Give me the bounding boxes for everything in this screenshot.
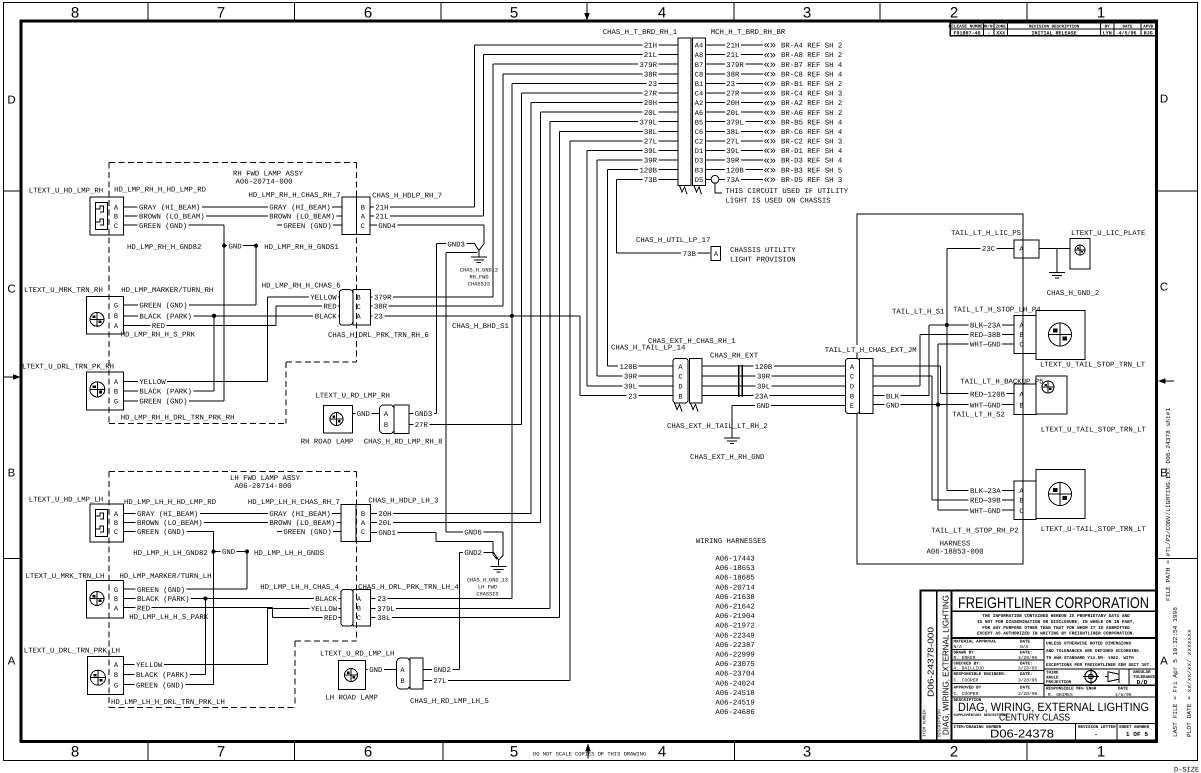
svg-text:BLACK (PARK): BLACK (PARK): [139, 312, 192, 321]
svg-text:BR-B7 REF SH 4: BR-B7 REF SH 4: [781, 62, 843, 70]
wire 120B vertical run: [607, 170, 609, 366]
svg-text:LTEXT_U_TAIL_STOP_TRN_LT: LTEXT_U_TAIL_STOP_TRN_LT: [1041, 426, 1147, 434]
approvals table: [1043, 638, 1045, 697]
svg-text:CHAS_H_DRL_PRK_TRN_LH_4: CHAS_H_DRL_PRK_TRN_LH_4: [358, 584, 459, 592]
wire GREEN (GND) RH headlamp: [123, 224, 224, 226]
third angle projection cell: [1044, 668, 1157, 670]
svg-text:LTEXT_U_RD_LMP_RH: LTEXT_U_RD_LMP_RH: [315, 393, 389, 401]
wire 23C: [947, 248, 1014, 250]
svg-text:A06-22349: A06-22349: [715, 632, 754, 640]
svg-text:39L: 39L: [644, 148, 657, 156]
wire 23 row into bulkhead connector: [512, 82, 678, 84]
svg-text:CHAS_EXT_H_RH_GND: CHAS_EXT_H_RH_GND: [690, 454, 765, 462]
ground symbol CHAS_H_GND_1S LH FWD CHASSIS: [498, 559, 500, 566]
wire 23 into tail LP connector: [580, 395, 673, 397]
svg-text:BLACK (PARK): BLACK (PARK): [136, 671, 189, 680]
svg-text:BLK: BLK: [886, 393, 900, 401]
svg-text:39R: 39R: [726, 158, 740, 166]
svg-text:39L: 39L: [757, 384, 770, 392]
svg-text:FOR ANY PURPOSE OTHER THAN THA: FOR ANY PURPOSE OTHER THAN THAT FOR WHOM…: [982, 626, 1130, 631]
tail/stop/turn lamp RH: [1036, 470, 1085, 519]
svg-text:LTEXT_U_TAIL_STOP_TRN_LT: LTEXT_U_TAIL_STOP_TRN_LT: [1040, 362, 1146, 370]
svg-text:B: B: [114, 313, 118, 321]
svg-text:APVD: APVD: [1143, 25, 1154, 30]
svg-text:RED—120B: RED—120B: [970, 391, 1006, 399]
svg-text:379L: 379L: [726, 119, 744, 127]
svg-text:YELLOW: YELLOW: [139, 379, 166, 387]
svg-text:A06-20714: A06-20714: [715, 584, 755, 592]
wire 39R to splice BR-D3: [706, 159, 764, 161]
svg-text:7: 7: [217, 744, 225, 761]
svg-text:ITEM NUMBER: ITEM NUMBER: [923, 709, 928, 737]
svg-text:DATE: DATE: [1122, 25, 1133, 30]
svg-text:38R: 38R: [644, 71, 658, 79]
wire GREEN (GND) marker LH: [124, 588, 248, 590]
label TAIL_LT_H_CHAS_EXT_JM: [823, 345, 917, 353]
wire GREEN (GND) LH headlamp: [124, 531, 214, 533]
svg-text:TAIL_LT_H_STOP_RH_P2: TAIL_LT_H_STOP_RH_P2: [931, 528, 1019, 536]
svg-text:N/A: N/A: [954, 644, 963, 650]
svg-text:WHT—GND: WHT—GND: [970, 402, 1001, 410]
svg-text:A06-21972: A06-21972: [715, 623, 754, 631]
svg-text:C: C: [7, 283, 15, 295]
svg-text:A06-18653: A06-18653: [715, 565, 754, 573]
svg-text:A06-18853-000: A06-18853-000: [927, 548, 984, 556]
svg-text:«»: «»: [764, 175, 777, 187]
svg-text:120B: 120B: [619, 364, 637, 372]
svg-text:DATE: DATE: [1020, 640, 1031, 645]
DRL lamp icon LH: [91, 670, 106, 685]
svg-text:DATE:: DATE:: [1020, 672, 1033, 677]
wire 39L to splice BR-D1: [706, 150, 764, 152]
svg-text:HD_LMP_MARKER/TURN_LH: HD_LMP_MARKER/TURN_LH: [120, 572, 212, 581]
svg-text:RED: RED: [137, 605, 151, 613]
svg-text:TAIL_LT_H_CHAS_EXT_JM: TAIL_LT_H_CHAS_EXT_JM: [825, 347, 917, 355]
svg-text:23: 23: [628, 393, 637, 401]
junction HD_LMP_RH_H_GND82: [222, 244, 226, 248]
svg-text:PLOT DATE = xx/xx/xx/ xxxxxxx: PLOT DATE = xx/xx/xx/ xxxxxxx: [1186, 629, 1193, 737]
svg-text:D/D: D/D: [1137, 679, 1148, 686]
svg-text:BR-A6 REF SH 2: BR-A6 REF SH 2: [781, 110, 842, 118]
svg-text:GRAY (HI_BEAM): GRAY (HI_BEAM): [139, 204, 200, 213]
connector CHAS_H_DRL_PRK_TRN_LH_4: [341, 590, 353, 627]
inline connector circle on 73A circuit: [711, 175, 719, 183]
svg-text:TO AWS STANDARD Y14.5M- 1982.: TO AWS STANDARD Y14.5M- 1982. WITH: [1046, 656, 1134, 661]
zone tick marks top: [147, 3, 149, 22]
svg-text:GRAY (HI_BEAM): GRAY (HI_BEAM): [269, 204, 330, 213]
right border alignment arrow: [1166, 380, 1175, 382]
company name: [952, 610, 1157, 612]
wire GND3: [409, 413, 437, 415]
svg-text:CENTURY CLASS: CENTURY CLASS: [999, 713, 1070, 724]
svg-text:3: 3: [803, 5, 811, 22]
svg-text:27R: 27R: [726, 91, 740, 99]
wire 120BA to tail lt harness: [702, 365, 846, 367]
svg-text:27L: 27L: [644, 139, 657, 147]
wire 379L to splice BR-B5: [706, 121, 764, 123]
svg-text:B: B: [114, 672, 118, 680]
headlamp icon RH: [96, 203, 108, 230]
svg-text:B: B: [850, 393, 854, 401]
svg-text:120B: 120B: [755, 364, 773, 372]
wire GND6: [446, 531, 503, 533]
svg-text:6: 6: [364, 744, 372, 761]
wire 27R vertical run: [521, 93, 523, 424]
svg-text:BROWN (LO_BEAM): BROWN (LO_BEAM): [269, 213, 335, 222]
svg-text:20H: 20H: [644, 100, 657, 108]
svg-text:20L: 20L: [378, 520, 391, 528]
wire YELLOW to 379R: [267, 296, 339, 298]
svg-text:GREEN (GND): GREEN (GND): [139, 222, 187, 231]
svg-text:CHAS_H_RD_LMP_RH_8: CHAS_H_RD_LMP_RH_8: [364, 438, 443, 446]
svg-text:HD_LMP_RH_H_GND82: HD_LMP_RH_H_GND82: [127, 244, 201, 252]
wire 23 LH: [370, 598, 512, 600]
wire 21H to splice BR-A4: [706, 44, 764, 46]
svg-text:38R: 38R: [374, 304, 388, 312]
svg-text:DIAG, WIRING, EXTERNAL LIGHTIN: DIAG, WIRING, EXTERNAL LIGHTING: [941, 595, 951, 735]
svg-text:23: 23: [648, 81, 657, 89]
zone tick marks left: [4, 190, 22, 192]
svg-text:G: G: [114, 303, 118, 311]
wire 39R into tail LP connector: [597, 375, 673, 377]
svg-text:CHAS_H_RD_LMP_LH_5: CHAS_H_RD_LMP_LH_5: [410, 698, 489, 706]
svg-text:WIRING HARNESSES: WIRING HARNESSES: [696, 538, 767, 546]
svg-text:CHASSIS UTILITY: CHASSIS UTILITY: [730, 247, 796, 255]
wire 23A branch: [512, 315, 580, 317]
svg-text:GND2: GND2: [464, 550, 482, 558]
wire gnd bus LH right: [246, 552, 248, 590]
wire branch to LH ground bus: [446, 251, 478, 254]
svg-text:D: D: [7, 94, 15, 106]
svg-text:GREEN (GND): GREEN (GND): [137, 528, 185, 537]
svg-text:D1: D1: [695, 148, 703, 156]
svg-text:GREEN (GND): GREEN (GND): [136, 681, 184, 690]
svg-text:HD_LMP_RH_H_S_PRK: HD_LMP_RH_H_S_PRK: [121, 332, 196, 340]
svg-text:XXX: XXX: [996, 30, 1005, 36]
wire gnd bus RH left: [223, 225, 225, 401]
svg-text:BR-A4 REF SH 2: BR-A4 REF SH 2: [781, 43, 842, 51]
wire 23A bus vertical: [946, 249, 948, 491]
svg-text:G: G: [114, 399, 118, 407]
svg-text:GND: GND: [357, 411, 371, 419]
svg-text:23C: 23C: [982, 246, 996, 254]
RH FWD LAMP ASSY dashed enclosure: [109, 162, 357, 164]
zone tick marks bottom: [147, 742, 149, 761]
svg-text:A8: A8: [695, 52, 703, 60]
RH headlamp wires to chassis connector: [123, 206, 341, 208]
wire RED to 38L: [273, 617, 342, 619]
wire gnd bus LH left: [212, 532, 214, 685]
svg-text:D06-24378: D06-24378: [990, 729, 1054, 741]
svg-text:23: 23: [726, 81, 735, 89]
bottom center alignment arrow: [587, 751, 589, 759]
svg-text:GND: GND: [886, 402, 900, 410]
LH road lamp box: [339, 661, 366, 690]
svg-text:21H: 21H: [644, 43, 657, 51]
DRL/turn/park connector RH: [87, 372, 124, 410]
svg-text:C. COOPER: C. COOPER: [954, 691, 979, 697]
svg-text:A06-21642: A06-21642: [715, 604, 754, 612]
svg-text:BR-D1 REF SH 4: BR-D1 REF SH 4: [781, 148, 843, 156]
connector CHAS_H_HDLP_RH_7: [342, 197, 370, 235]
svg-text:120B: 120B: [639, 167, 657, 175]
svg-text:MCH_H_T_BRD_RH_BR: MCH_H_T_BRD_RH_BR: [711, 29, 786, 37]
svg-text:APPROVED BY: APPROVED BY: [954, 686, 982, 691]
svg-text:DATE: DATE: [1118, 687, 1129, 692]
svg-text:4/5/96: 4/5/96: [1115, 692, 1132, 698]
wire 73B to utility provision: [616, 252, 710, 254]
svg-text:C4: C4: [695, 91, 703, 99]
wire GND2: [460, 551, 490, 553]
svg-text:GND4: GND4: [378, 223, 396, 231]
wire RED to 38R: [276, 305, 339, 307]
wire 21L: [370, 215, 484, 217]
svg-text:GND2: GND2: [433, 667, 451, 675]
svg-text:D: D: [850, 384, 854, 392]
svg-text:DATE: DATE: [1020, 686, 1031, 691]
svg-text:39R: 39R: [644, 158, 658, 166]
connector body P5: [1014, 384, 1036, 415]
wire 39R from JM: [873, 375, 932, 377]
DRL/turn/park connector LH: [88, 657, 124, 695]
svg-text:39R: 39R: [624, 374, 638, 382]
svg-text:F91007-46: F91007-46: [953, 30, 980, 36]
svg-text:CHAS_H_HDLP_LH_3: CHAS_H_HDLP_LH_3: [368, 498, 438, 506]
wire 379R row into bulkhead connector: [493, 63, 678, 65]
wire 20H to splice BR-A2: [706, 102, 764, 104]
wire 38L vertical run: [559, 131, 561, 617]
svg-text:379L: 379L: [377, 606, 395, 614]
wire 21H row into bulkhead connector: [474, 44, 678, 46]
svg-text:23: 23: [377, 596, 386, 604]
svg-text:B1: B1: [695, 81, 703, 89]
svg-text:LH FWD LAMP ASSY: LH FWD LAMP ASSY: [230, 475, 301, 483]
svg-text:20L: 20L: [644, 110, 657, 118]
svg-text:RH FWD LAMP ASSY: RH FWD LAMP ASSY: [233, 171, 304, 179]
svg-text:D06-24378-000: D06-24378-000: [926, 627, 936, 697]
svg-text:B: B: [1019, 498, 1023, 506]
svg-text:B: B: [8, 467, 16, 479]
wire 27R to splice BR-C4: [706, 92, 764, 94]
wire RED marker LH: [124, 607, 273, 609]
svg-text:-: -: [1094, 731, 1099, 740]
svg-text:BROWN (LO_BEAM): BROWN (LO_BEAM): [139, 213, 205, 222]
wire GND bus vertical: [937, 344, 939, 510]
svg-text:2/28/96: 2/28/96: [1018, 691, 1038, 697]
RH road lamp box: [323, 405, 352, 433]
svg-text:LTEXT_U_LIC_PLATE: LTEXT_U_LIC_PLATE: [1071, 230, 1145, 238]
wire 27L row into bulkhead connector: [570, 140, 678, 142]
wire 21L to splice BR-A8: [706, 54, 764, 56]
svg-text:A06-20714-000: A06-20714-000: [236, 179, 293, 187]
svg-text:B: B: [114, 389, 118, 397]
wire BLACK (PARK) marker LH: [124, 598, 342, 600]
wire 20H row into bulkhead connector: [531, 102, 678, 104]
svg-text:GREEN (GND): GREEN (GND): [139, 302, 187, 311]
svg-text:REVISION LETTER: REVISION LETTER: [1078, 725, 1116, 730]
svg-text:379R: 379R: [726, 62, 744, 70]
junction TAIL_LT_H_S2: [936, 403, 940, 407]
svg-text:BLK—23A: BLK—23A: [970, 488, 1001, 496]
svg-text:LTEXT_U_HD_LMP_LH: LTEXT_U_HD_LMP_LH: [29, 497, 103, 505]
svg-text:A06-21904: A06-21904: [715, 613, 755, 621]
svg-text:GRAY (HI_BEAM): GRAY (HI_BEAM): [137, 510, 198, 519]
svg-text:C: C: [850, 374, 854, 382]
bulkhead connector break symbol: [680, 186, 688, 195]
svg-text:B: B: [400, 678, 404, 686]
road lamp icon LH: [345, 669, 358, 682]
svg-text:21L: 21L: [726, 52, 739, 60]
svg-text:HD_LMP_LH_H_CHAS_4: HD_LMP_LH_H_CHAS_4: [260, 584, 339, 592]
svg-text:D5: D5: [695, 177, 703, 185]
svg-text:HD_LMP_LH_H_CHAS_RH_7: HD_LMP_LH_H_CHAS_RH_7: [248, 499, 340, 507]
svg-text:B: B: [356, 295, 360, 303]
wire 27L: [423, 679, 570, 681]
wire 39R row into bulkhead connector: [597, 159, 678, 161]
svg-text:CHASSIS: CHASSIS: [476, 592, 498, 598]
svg-text:A: A: [8, 655, 16, 667]
svg-text:21L: 21L: [375, 214, 388, 222]
svg-text:GND6: GND6: [464, 530, 482, 538]
svg-text:REVISION DESCRIPTION: REVISION DESCRIPTION: [1029, 25, 1080, 30]
svg-text:LTEXT_U_HD_LMP_RH: LTEXT_U_HD_LMP_RH: [29, 187, 103, 195]
svg-text:HD_LMP_H_LH_GND82: HD_LMP_H_LH_GND82: [133, 550, 207, 558]
svg-text:7: 7: [217, 5, 225, 22]
svg-text:3/28/95: 3/28/95: [1018, 655, 1038, 661]
title block: [920, 590, 1156, 740]
svg-text:B: B: [114, 520, 118, 528]
svg-text:A: A: [1160, 655, 1168, 667]
svg-text:27R: 27R: [415, 422, 429, 430]
tail/stop/turn lamp LH: [1036, 311, 1085, 360]
svg-text:CHAS_H_T_BRD_RH_1: CHAS_H_T_BRD_RH_1: [603, 29, 678, 37]
svg-text:2: 2: [950, 744, 958, 761]
svg-text:A06-17443: A06-17443: [715, 556, 754, 564]
wire 120B into tail LP connector: [608, 365, 674, 367]
connector CHAS_H_RD_LMP_RH_8: [380, 405, 395, 434]
svg-text:HD_LMP_RH_H_CHAS_6: HD_LMP_RH_H_CHAS_6: [262, 283, 341, 291]
note: circuit used if utility light used: [714, 183, 716, 194]
svg-text:A6: A6: [695, 110, 703, 118]
svg-text:CHASSIS: CHASSIS: [468, 282, 490, 288]
wire RED-39B to P2: [932, 499, 1014, 501]
junction CHAS_H_BHD_S1: [510, 314, 514, 318]
svg-text:TAIL_LT_H_LIC_PS: TAIL_LT_H_LIC_PS: [951, 230, 1022, 238]
ground symbol CHAS_H_GND_2 RH FWD CHASSIS: [478, 251, 480, 257]
connector CHAS_H_DRL_PRK_TRN_RH_6: [339, 290, 353, 325]
revision table: [950, 23, 1155, 36]
junction park circuit RH: [212, 314, 216, 318]
svg-text:CHAS_H_GND_1S: CHAS_H_GND_1S: [467, 578, 508, 584]
license plate lamp LTEXT_U_LIC_PLATE: [1070, 239, 1090, 270]
svg-text:THIS CIRCUIT USED IF UTILITY: THIS CIRCUIT USED IF UTILITY: [726, 188, 849, 196]
svg-text:EXCEPTIONS PER FREIGHTLINER ED: EXCEPTIONS PER FREIGHTLINER EDM SECT 30T…: [1046, 663, 1152, 668]
svg-text:73B: 73B: [683, 251, 697, 259]
svg-text:20L: 20L: [726, 110, 739, 118]
svg-text:RELEASE NUMBER: RELEASE NUMBER: [949, 25, 986, 30]
wire 21H vertical run: [473, 45, 475, 207]
svg-text:R. GRIMES: R. GRIMES: [1048, 692, 1073, 698]
svg-text:GND3: GND3: [415, 411, 433, 419]
svg-text:C: C: [356, 304, 360, 312]
svg-text:AND TOLERANCES ARE DEFINED ACC: AND TOLERANCES ARE DEFINED ACCORDING: [1046, 649, 1139, 654]
wire 39L into tail LP connector: [587, 385, 673, 387]
wire 20L vertical run: [540, 112, 542, 522]
svg-text:MATERIAL APPROVAL: MATERIAL APPROVAL: [954, 640, 997, 645]
wire 120B row into bulkhead connector: [608, 169, 679, 171]
svg-text:E: E: [850, 403, 854, 411]
svg-text:BR-C8 REF SH 4: BR-C8 REF SH 4: [781, 71, 843, 79]
svg-text:TAIL_LT_H_S1: TAIL_LT_H_S1: [892, 308, 945, 316]
marker/turn connector LH: [87, 581, 124, 619]
svg-text:C: C: [361, 223, 365, 231]
svg-text:23: 23: [374, 313, 383, 321]
svg-text:73A: 73A: [726, 177, 740, 185]
svg-text:GND: GND: [757, 403, 771, 411]
svg-text:GND: GND: [229, 243, 243, 251]
svg-text:C: C: [1019, 508, 1023, 516]
headlamp connector RH: [90, 197, 123, 235]
svg-text:23A: 23A: [755, 393, 769, 401]
svg-text:LTEXT_U-TAIL_STOP_TRN_LT: LTEXT_U-TAIL_STOP_TRN_LT: [1041, 526, 1147, 534]
svg-text:HD_LMP_RH_H_DRL_TRN_PRK_RH: HD_LMP_RH_H_DRL_TRN_PRK_RH: [121, 414, 235, 422]
svg-text:120B: 120B: [726, 167, 744, 175]
wire WHT-GND bus: [873, 404, 1014, 406]
svg-text:RED: RED: [324, 615, 338, 623]
svg-text:BR-B5 REF SH 4: BR-B5 REF SH 4: [781, 119, 843, 127]
svg-text:27L: 27L: [433, 678, 446, 686]
wire 20H vertical run: [530, 103, 532, 514]
svg-text:38L: 38L: [726, 129, 739, 137]
bulkhead connector body right half: [693, 38, 706, 186]
wire 27R row into bulkhead connector: [522, 92, 678, 94]
svg-text:1: 1: [1097, 744, 1105, 761]
svg-text:A06-24024: A06-24024: [715, 680, 755, 688]
svg-text:D-SIZE: D-SIZE: [1174, 767, 1199, 773]
svg-text:LH ROAD LAMP: LH ROAD LAMP: [325, 695, 378, 703]
proprietary note: [952, 637, 1157, 639]
svg-text:LH FWD: LH FWD: [478, 585, 497, 591]
projection symbol cone: [1105, 670, 1119, 683]
wire YELLOW lower RH: [123, 380, 267, 382]
wire RED-120B to P5: [941, 393, 1014, 395]
svg-text:ANGLE: ANGLE: [1046, 675, 1059, 680]
svg-text:21H: 21H: [726, 43, 739, 51]
connector CHAS_H_HDLP_LH_3: [341, 504, 370, 541]
wire 27L vertical run: [569, 141, 571, 680]
svg-text:BR-D3 REF SH 4: BR-D3 REF SH 4: [781, 158, 843, 166]
svg-text:RESPONSIBLE MFG ENGR: RESPONSIBLE MFG ENGR: [1046, 687, 1097, 692]
wire 20L: [370, 522, 540, 524]
wire 38R row into bulkhead connector: [503, 73, 678, 75]
svg-text:BLK—23A: BLK—23A: [970, 323, 1001, 331]
svg-text:20H: 20H: [726, 100, 739, 108]
svg-text:BR-B3 REF SH 5: BR-B3 REF SH 5: [781, 167, 842, 175]
connector CHAS_H_TAIL_LP_14 body: [673, 358, 688, 403]
svg-text:5: 5: [510, 5, 518, 22]
svg-text:CHAS_H_GND_2: CHAS_H_GND_2: [1047, 290, 1100, 298]
wire YELLOW lower LH: [124, 663, 268, 665]
wire 27L to splice BR-C2: [706, 140, 764, 142]
svg-text:PROJECTION: PROJECTION: [1046, 680, 1072, 685]
wire BLACK (PARK) lower RH: [123, 390, 214, 392]
ground symbol CHAS_EXT_H_RH_GND: [724, 438, 740, 444]
svg-text:73B: 73B: [644, 177, 658, 185]
svg-text:C2: C2: [695, 139, 703, 147]
svg-text:FILE PATH = #TL/P2/CONV/LIGHT: FILE PATH = #TL/P2/CONV/LIGHTING.EXT D06…: [1165, 408, 1172, 601]
svg-text:-: -: [987, 30, 990, 36]
wire 39L row into bulkhead connector: [587, 150, 678, 152]
